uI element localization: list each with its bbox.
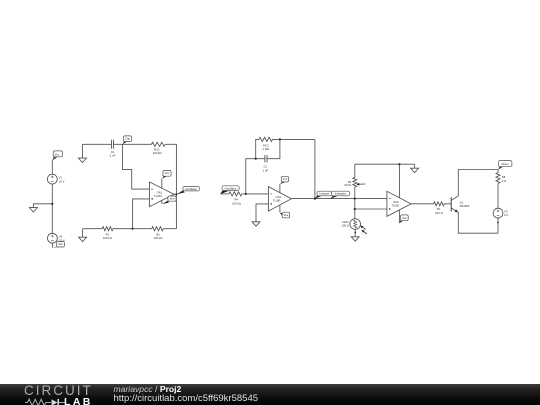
wire R2 to right rail	[163, 228, 176, 230]
op-amp OA1 TL081	[149, 182, 174, 207]
wire RC2 to right leg	[273, 138, 315, 140]
svg-text:1 nF: 1 nF	[110, 154, 116, 158]
op-amp OA6 bottom pin tag	[398, 210, 400, 223]
junction LSR1 bottom	[354, 232, 356, 234]
junction supply midpoint	[51, 203, 53, 205]
svg-text:Vcc: Vcc	[54, 153, 59, 157]
wire bottom ground to R1	[83, 228, 103, 230]
resistor R1 100 kOhm	[102, 227, 113, 231]
wire feedback left leg	[246, 159, 265, 194]
svg-text:Vcc: Vcc	[165, 171, 170, 175]
svg-text:TL081: TL081	[154, 194, 162, 198]
voltage source V1 10 V	[47, 174, 64, 184]
svg-text:100 kΩ: 100 kΩ	[153, 151, 162, 155]
wire plus input path	[133, 199, 150, 229]
wire OA6 output	[411, 203, 434, 205]
wire LSR1 to ground	[354, 229, 356, 237]
wire OA1 output	[174, 193, 177, 195]
wire ground to C1	[82, 143, 111, 145]
resistor RC1 100 kOhm	[152, 142, 166, 146]
svg-text:TL081: TL081	[273, 199, 281, 203]
svg-text:Vcc: Vcc	[283, 177, 288, 181]
junction OA6 plus tap	[354, 208, 356, 210]
junction feedback tap	[245, 193, 247, 195]
junction R6 bottom node	[354, 198, 356, 200]
voltage source V2 -10 V	[48, 233, 66, 243]
svg-text:100 kΩ: 100 kΩ	[232, 201, 241, 205]
svg-text:4 Ω: 4 Ω	[502, 179, 506, 183]
svg-text:LSR1: LSR1	[342, 220, 349, 224]
resistor R6 variable 100 Ohm	[354, 187, 356, 199]
wire V1 to V2	[51, 184, 53, 233]
wire OA4 plus to ground	[256, 204, 268, 222]
node Cap tag	[123, 136, 132, 144]
node Vee supply tag	[52, 242, 64, 248]
svg-text:10 V: 10 V	[59, 180, 65, 184]
capacitor C1 1 nF	[110, 140, 116, 158]
junction RC2 left	[255, 158, 257, 160]
resistor R4 100 kOhm	[221, 193, 229, 195]
op-amp OA6 TL081	[387, 191, 411, 216]
svg-text:Integrat: Integrat	[320, 192, 330, 196]
svg-text:TL081: TL081	[391, 204, 399, 208]
wire RC1 to right rail	[165, 144, 176, 228]
junction feedback output	[314, 198, 316, 200]
junction OA1 output	[175, 193, 177, 195]
junction feedback bottom	[132, 228, 134, 230]
op-amp OA4 TL081	[268, 187, 291, 212]
op-amp OA4 Vee pin	[279, 205, 281, 212]
photoresistor LSR1 100 Ohm	[342, 219, 361, 230]
svg-text:100 kΩ: 100 kΩ	[154, 236, 163, 240]
wire node to LSR1	[354, 199, 356, 219]
svg-text:Integrator: Integrator	[335, 192, 347, 196]
svg-text:Vee: Vee	[170, 197, 175, 201]
svg-text:Vee: Vee	[58, 242, 63, 246]
svg-text:1 nF: 1 nF	[262, 168, 268, 172]
wire to OA6 plus	[355, 208, 387, 210]
svg-text:Oscillator: Oscillator	[225, 186, 237, 190]
svg-text:100 Ω: 100 Ω	[344, 183, 351, 187]
transistor Q1 2N3904	[451, 196, 470, 212]
svg-text:100 kΩ: 100 kΩ	[103, 236, 112, 240]
wire V3 to bottom rail	[497, 218, 499, 233]
wire junction to ground	[33, 204, 52, 208]
resistor RC2 1 MOhm	[259, 137, 273, 141]
ground LSR1	[351, 237, 359, 241]
wire minus input path	[122, 144, 149, 189]
wire R1 to R2	[113, 228, 152, 230]
resistor R2 100 kOhm	[152, 227, 164, 231]
wire C1 to RC1	[114, 143, 152, 145]
ground top rail	[414, 164, 416, 168]
wire C2 right to riser	[267, 139, 280, 158]
wire V2 bottom	[51, 243, 53, 248]
ground bottom left	[82, 229, 84, 238]
svg-text:Vcc: Vcc	[402, 216, 407, 220]
svg-text:R8: R8	[502, 175, 506, 179]
svg-text:Oscillator: Oscillator	[185, 187, 197, 191]
ground OA4 plus	[252, 222, 260, 226]
svg-text:Cap: Cap	[125, 137, 131, 141]
wire R4 to OA4 minus	[242, 193, 269, 195]
svg-text:100 Ω: 100 Ω	[342, 224, 349, 228]
svg-text:Vee: Vee	[283, 213, 288, 217]
junction V3 bottom	[497, 222, 499, 224]
resistor R6 value label	[344, 180, 352, 187]
node Integrator tag left	[315, 191, 332, 199]
photoresistor LSR1 arrows	[360, 225, 367, 234]
resistor R8 4 Ohm	[497, 170, 499, 173]
node Vcc supply tag	[52, 151, 62, 161]
voltage source V3 9 V	[493, 208, 508, 218]
resistor R6 wiper arrow	[356, 183, 365, 186]
wire OA4 output to OA6 minus	[291, 198, 387, 200]
op-amp OA1 Vee pin	[161, 201, 163, 204]
svg-text:Motor: Motor	[502, 162, 509, 166]
ground supply	[29, 208, 37, 212]
wire RC2 branch up	[256, 139, 259, 158]
wire OA6 top pin	[398, 164, 400, 198]
op-amp OA1 Vcc pin	[161, 179, 163, 188]
node Motor tag	[498, 161, 512, 170]
capacitor C2 1 nF	[262, 155, 268, 172]
svg-text:1 MΩ: 1 MΩ	[262, 147, 269, 151]
wire R7 to Q1 base	[444, 203, 451, 205]
resistor R7 100 Ohm	[434, 202, 445, 206]
svg-text:100 Ω: 100 Ω	[435, 211, 443, 215]
svg-text:9 V: 9 V	[504, 213, 508, 217]
node Oscillator tag left	[177, 187, 200, 195]
wire Q1 collector	[458, 170, 498, 197]
wire top rail comparator	[355, 163, 415, 165]
junction C2 right riser	[279, 138, 281, 140]
wire R8 to V3	[497, 183, 499, 208]
wire V1 top to Vcc tag	[51, 160, 53, 174]
junction OA6 top pin	[398, 163, 400, 165]
node Integrator tag right	[330, 191, 350, 199]
svg-text:2N3904: 2N3904	[460, 204, 470, 208]
ground C1 left	[81, 144, 83, 158]
wire bottom rail to Q1 emitter	[458, 212, 498, 233]
node Oscillator tag right	[220, 186, 239, 195]
op-amp OA4 Vcc pin	[279, 184, 281, 193]
wire feedback right leg down	[314, 139, 316, 198]
